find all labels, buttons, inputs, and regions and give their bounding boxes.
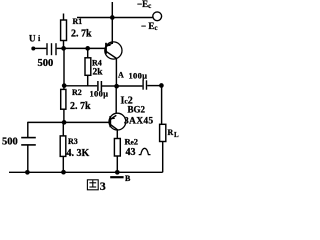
node R2 bottom junction	[62, 120, 67, 125]
svg-text:2. 7k: 2. 7k	[70, 101, 91, 112]
svg-text:Re2: Re2	[125, 137, 139, 147]
label -Ec bottom	[141, 21, 158, 32]
node R2 top junction	[62, 83, 67, 88]
wire top supply rail	[77, 17, 153, 19]
node C4 bottom	[25, 170, 30, 175]
label ohm bump	[139, 148, 151, 154]
svg-text:−Ec: −Ec	[137, 0, 151, 10]
label BG2	[128, 105, 146, 115]
svg-text:L: L	[174, 131, 179, 139]
wire run to C2	[64, 85, 97, 87]
capacitor C2	[97, 81, 99, 91]
label node A	[118, 71, 124, 80]
svg-text:BG2: BG2	[128, 105, 146, 115]
resistor R4	[87, 48, 89, 57]
wire mid rail	[28, 121, 111, 123]
wire RL branch down	[161, 86, 163, 125]
svg-text:U: U	[29, 34, 36, 44]
resistor RL	[160, 124, 166, 141]
svg-text:2k: 2k	[93, 68, 104, 78]
svg-text:R4: R4	[92, 59, 102, 68]
wire C4 to ground rail	[27, 146, 29, 173]
ground bar	[110, 176, 123, 178]
svg-text:A: A	[118, 71, 124, 80]
wire bottom ground rail	[9, 171, 163, 173]
label 500 (C1)	[38, 58, 54, 69]
resistor Re2	[116, 130, 118, 139]
label Ui	[29, 34, 41, 44]
svg-text:500: 500	[2, 137, 18, 148]
svg-text:R1: R1	[73, 17, 83, 26]
wire base line to VT1	[64, 47, 106, 49]
svg-text:2. 7k: 2. 7k	[71, 29, 92, 40]
terminal -Ec circle	[153, 12, 162, 21]
label 100u (C3)	[129, 71, 148, 81]
wire C1 to base node	[57, 47, 64, 49]
wire C2 to node A	[102, 85, 117, 87]
label 100u (C2)	[90, 89, 109, 99]
input terminal dot	[31, 47, 35, 51]
label Ic2	[121, 96, 133, 107]
svg-text:100µ: 100µ	[129, 71, 148, 81]
svg-text:R2: R2	[72, 88, 82, 97]
svg-text:500: 500	[38, 58, 54, 69]
label -Ec top (clipped)	[137, 0, 151, 10]
node A dot	[114, 84, 119, 89]
svg-text:3: 3	[100, 179, 106, 191]
resistor R2	[63, 86, 65, 90]
label 3AX45	[124, 117, 153, 127]
wire node A to C3	[117, 85, 143, 87]
label B	[125, 174, 131, 183]
svg-text:− Ec: − Ec	[141, 21, 158, 32]
capacitor C4	[21, 137, 36, 139]
node B1	[61, 46, 66, 51]
node R3 bottom	[61, 170, 66, 175]
svg-text:4. 3K: 4. 3K	[67, 148, 90, 159]
node B (Re2 bottom)	[115, 170, 120, 175]
svg-text:43: 43	[126, 147, 136, 158]
node R4 top junction	[85, 46, 90, 51]
capacitor C3	[142, 80, 144, 89]
resistor R3	[62, 122, 64, 135]
svg-text:i: i	[38, 34, 41, 43]
capacitor C1 (three-bar as in scan)	[46, 43, 48, 55]
wire input to C1	[33, 47, 46, 49]
label figure number (CJK box glyph)	[87, 180, 98, 190]
node junction on top rail	[110, 15, 115, 20]
svg-text:B: B	[125, 174, 131, 183]
transistor VT1	[105, 42, 122, 59]
svg-text:R: R	[168, 128, 174, 137]
svg-text:100µ: 100µ	[90, 89, 109, 99]
resistor R1	[63, 14, 65, 21]
transistor BG2	[109, 113, 126, 130]
node RL top	[159, 83, 164, 88]
wire C3 to RL node	[147, 85, 161, 87]
label 500 (C4)	[2, 137, 18, 148]
svg-text:3AX45: 3AX45	[124, 117, 153, 127]
svg-text:R3: R3	[68, 137, 78, 146]
wire node A to BG2 collector	[115, 86, 117, 113]
wire B1 down	[63, 48, 65, 85]
wire mid rail corner down to C4	[27, 122, 29, 137]
